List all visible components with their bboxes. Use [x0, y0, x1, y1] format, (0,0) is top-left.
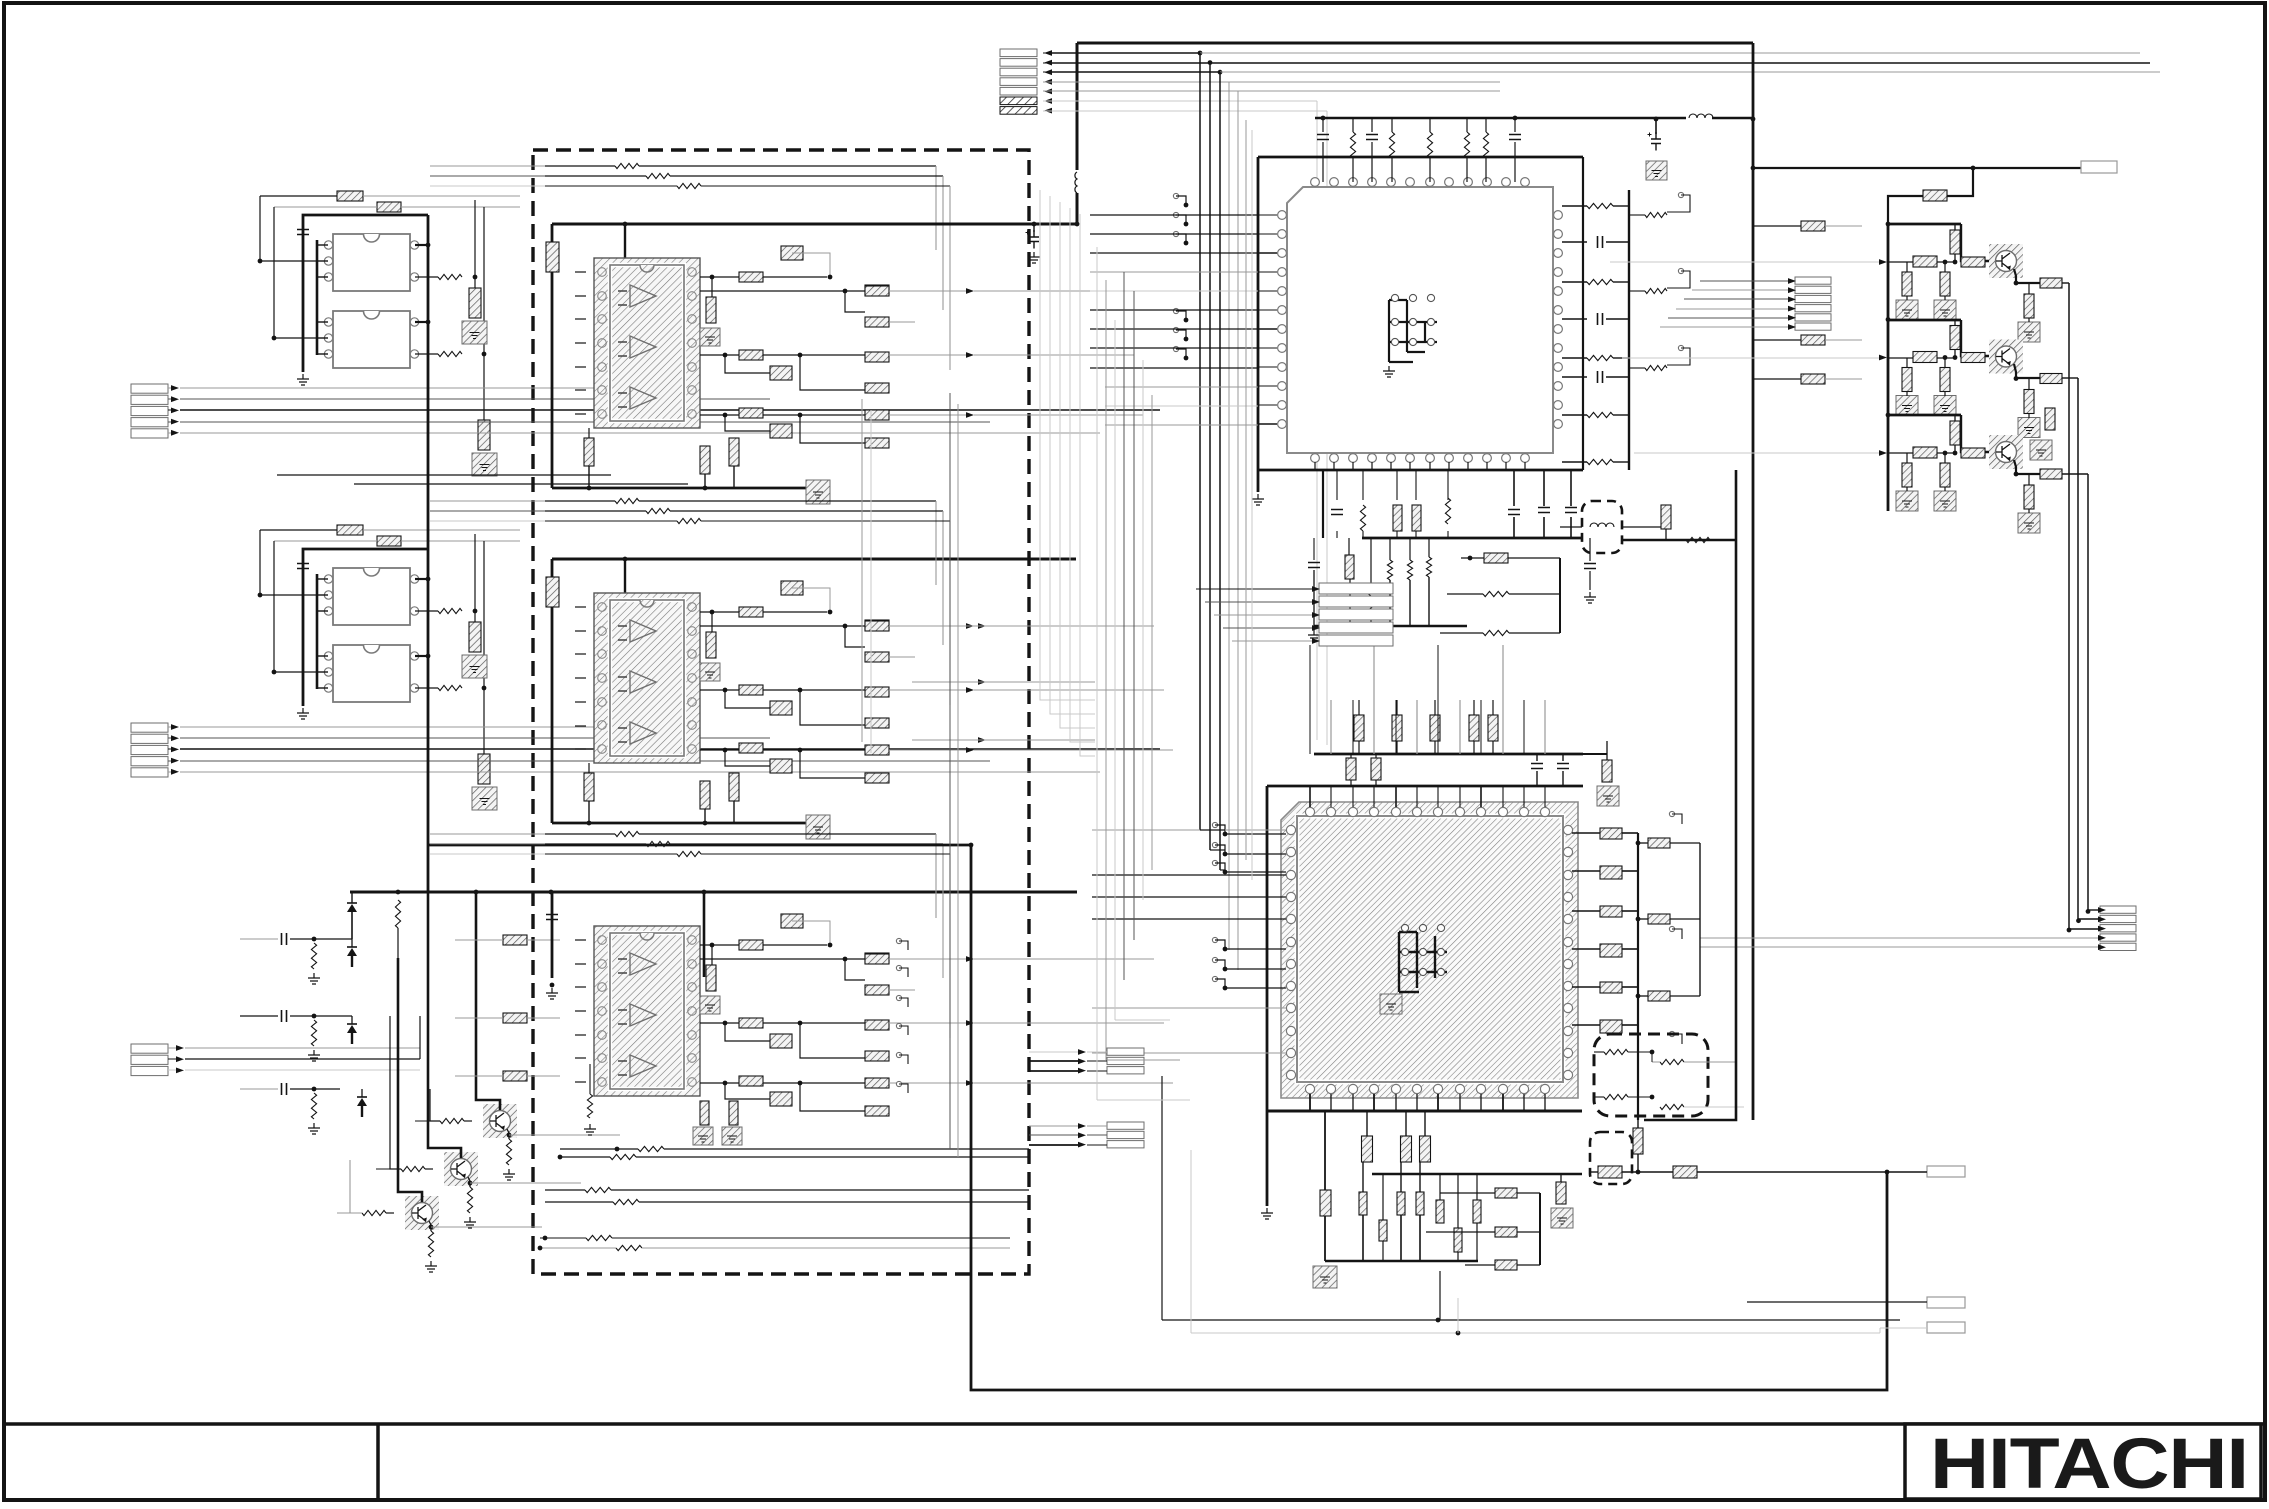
wire — [1190, 1150, 1192, 1333]
ground pad — [1597, 786, 1619, 806]
arrow — [1312, 625, 1320, 631]
wire — [1638, 842, 1648, 844]
wire — [1087, 1125, 1107, 1127]
resistor R108 — [1426, 557, 1431, 577]
junction — [723, 353, 728, 358]
wire — [725, 1023, 770, 1041]
wire pin stub — [1502, 786, 1504, 807]
junction — [1223, 986, 1228, 991]
wire — [1176, 196, 1186, 205]
wire — [1223, 627, 1312, 629]
wire — [290, 1015, 314, 1017]
wire pin stub — [1502, 1094, 1504, 1111]
wire — [1514, 118, 1516, 132]
wire — [1029, 1134, 1078, 1136]
wire — [1570, 517, 1572, 538]
op-amp UA2 — [324, 311, 418, 368]
wire — [1536, 771, 1538, 786]
wire — [899, 1084, 908, 1093]
wire input row — [1105, 424, 1258, 426]
junction — [1953, 355, 1958, 360]
arrow — [171, 430, 179, 436]
wire — [314, 1015, 352, 1017]
wire — [1396, 741, 1398, 754]
wire — [1473, 700, 1475, 715]
arrow — [2098, 926, 2106, 932]
transistor Q1 — [483, 1104, 517, 1138]
wire — [1370, 538, 1372, 588]
wire pin stub — [1416, 1094, 1418, 1111]
wire — [560, 1156, 610, 1158]
wire — [2078, 918, 2098, 920]
resistor R155 — [1473, 1200, 1481, 1223]
capacitor CA1 — [469, 288, 481, 318]
resistor R129 — [2024, 390, 2034, 414]
wire — [1825, 225, 1862, 227]
resistor R98 — [1645, 288, 1667, 293]
wire — [1400, 1215, 1402, 1261]
wire — [545, 1201, 613, 1203]
wire pin stub — [1258, 252, 1277, 254]
open terminal — [1212, 957, 1217, 962]
wire — [1670, 918, 1700, 920]
resistor R119 — [1961, 257, 1985, 267]
junction — [1751, 117, 1756, 122]
wire — [1670, 842, 1700, 844]
wire — [1670, 995, 1700, 997]
resistor R138 — [1392, 715, 1402, 741]
capacitor CE2 — [1913, 352, 1937, 363]
wire — [314, 1088, 340, 1090]
resistor R115 — [1801, 221, 1825, 231]
junction — [396, 890, 401, 895]
wire — [560, 1148, 638, 1150]
junction — [1650, 1050, 1655, 1055]
wire input row — [1092, 874, 1286, 876]
wire — [974, 414, 1143, 416]
wire — [1517, 1192, 1540, 1194]
wire — [240, 1088, 278, 1090]
wire — [889, 1082, 972, 1084]
resistor R137 — [1354, 715, 1364, 741]
wire — [1352, 700, 1354, 754]
resistor R144 — [1602, 760, 1612, 782]
wire — [763, 276, 827, 278]
crystal X1 — [1389, 300, 1437, 362]
wire — [168, 409, 171, 411]
wire — [462, 474, 611, 476]
wire input — [185, 1058, 420, 1060]
wire — [2062, 377, 2078, 379]
wire — [670, 843, 943, 845]
wire input line — [180, 409, 1160, 411]
open terminal — [1173, 231, 1178, 236]
wire main right bus — [1752, 43, 1755, 1120]
wire — [1362, 1215, 1364, 1261]
wire — [588, 801, 590, 823]
wire — [1566, 1171, 1590, 1173]
resistor R145 — [1320, 1190, 1331, 1216]
wire routing — [1123, 272, 1125, 980]
resistor R161 — [1600, 866, 1622, 879]
wire — [1492, 741, 1494, 754]
resistor R12 — [311, 1093, 316, 1119]
arrow — [1044, 79, 1052, 85]
resistor R8 — [438, 685, 462, 690]
wire pin stub — [1258, 366, 1277, 368]
wire — [889, 414, 972, 416]
svg-text:HITACHI: HITACHI — [1930, 1425, 2248, 1504]
wire — [1523, 700, 1525, 754]
wire — [1644, 470, 1736, 1120]
wire routing — [870, 410, 872, 753]
wire — [1176, 215, 1186, 224]
wire — [274, 541, 317, 672]
junction — [1218, 70, 1223, 75]
wire — [700, 958, 865, 960]
wire — [827, 354, 865, 356]
wire — [1961, 415, 1989, 452]
wire — [575, 389, 586, 391]
resistor R153 — [1436, 1200, 1444, 1223]
wire — [1622, 526, 1665, 528]
wire — [1466, 158, 1468, 182]
wire — [670, 510, 943, 512]
open terminal — [896, 1023, 901, 1028]
junction — [1636, 1170, 1641, 1175]
wire — [588, 763, 590, 773]
wire — [1350, 780, 1352, 786]
resistor R133 — [1940, 463, 1950, 487]
junction — [587, 486, 592, 491]
wire — [474, 611, 476, 622]
diode D4 — [357, 1097, 367, 1106]
resistor R65 — [739, 940, 763, 950]
wire — [527, 1017, 560, 1019]
wire — [1429, 158, 1431, 182]
connector CN6 — [1795, 277, 1831, 330]
wire — [889, 749, 972, 751]
wire routing — [1200, 829, 1225, 831]
wire — [1087, 1070, 1107, 1072]
wire — [317, 260, 328, 262]
wire — [899, 941, 908, 950]
wire — [1461, 557, 1484, 559]
wire — [642, 1247, 1010, 1249]
wire — [701, 520, 950, 522]
wire — [763, 414, 827, 416]
resistor R76 — [865, 1106, 889, 1116]
wire — [1362, 470, 1364, 500]
wire — [575, 1057, 586, 1059]
wire — [1667, 348, 1690, 365]
connector CNC — [131, 1044, 168, 1076]
wire — [1961, 224, 1989, 261]
arrow — [171, 385, 179, 391]
wire — [1606, 318, 1629, 320]
wire — [1613, 281, 1629, 283]
wire input line — [180, 421, 990, 423]
junction — [798, 748, 803, 753]
wire — [317, 353, 328, 355]
resistor R79 — [729, 1101, 738, 1125]
junction — [843, 289, 848, 294]
wire — [425, 1168, 433, 1170]
IC QFP U10 pins — [1278, 178, 1563, 463]
wire routing — [430, 853, 545, 855]
open terminal — [1678, 268, 1683, 273]
wire — [540, 1247, 616, 1249]
capacitor C8 — [1366, 135, 1378, 140]
wire — [701, 853, 950, 855]
ground pad — [693, 1127, 713, 1145]
wire — [1572, 986, 1600, 988]
wire output — [431, 1226, 542, 1228]
wire — [1672, 1034, 1682, 1044]
open terminal — [896, 1052, 901, 1057]
resistor R60 — [865, 621, 889, 631]
wire — [763, 611, 827, 613]
wire — [317, 337, 328, 339]
resistor R82 — [610, 1154, 636, 1159]
junction — [1456, 1331, 1461, 1336]
wire — [1434, 741, 1436, 754]
junction — [543, 1236, 548, 1241]
resistor R169 — [1604, 1049, 1628, 1054]
arrow — [966, 352, 974, 358]
wire — [1366, 1111, 1368, 1136]
junction — [1886, 317, 1891, 322]
wire — [1676, 308, 1788, 310]
open terminal — [1212, 860, 1217, 865]
wire — [899, 1026, 908, 1035]
wire — [1162, 1319, 1900, 1321]
wire — [1572, 832, 1600, 834]
wire — [168, 760, 171, 762]
ground pad — [1380, 994, 1402, 1014]
wire — [2014, 364, 2040, 378]
wire — [1395, 700, 1397, 754]
resistor R44 — [739, 607, 763, 617]
wire — [575, 748, 586, 750]
wire pin stub — [1309, 1094, 1311, 1111]
resistor R146 — [1362, 1136, 1373, 1162]
junction — [1223, 852, 1228, 857]
wire bus — [1219, 72, 1221, 870]
open terminal — [1678, 345, 1683, 350]
wire pin stub — [1371, 462, 1373, 470]
junction — [1184, 241, 1189, 246]
resistor R141 — [1488, 715, 1498, 741]
wire — [670, 175, 943, 177]
wire — [588, 428, 590, 438]
wire input line — [180, 771, 1100, 773]
arrow — [966, 956, 974, 962]
open terminal — [1669, 926, 1674, 931]
wire routing — [1251, 130, 1253, 880]
wire — [1187, 829, 1267, 831]
ground — [308, 973, 320, 984]
wire — [942, 176, 944, 310]
wire — [1419, 1162, 1421, 1192]
wire routing — [1070, 208, 1095, 742]
arrow — [1788, 278, 1796, 284]
wire — [1961, 320, 1989, 356]
wire — [575, 701, 586, 703]
ground — [1584, 592, 1596, 603]
wire — [1205, 601, 1312, 603]
resistor R165 — [1600, 1020, 1622, 1033]
wire — [1043, 90, 1052, 92]
wire feedback — [545, 165, 615, 167]
wire — [1944, 392, 1946, 396]
capacitor C17 — [1308, 563, 1320, 568]
ground pad — [1896, 396, 1918, 416]
resistor R59 — [729, 773, 739, 801]
wire — [639, 833, 936, 835]
capacitor CE3 — [1913, 447, 1937, 458]
wire — [1589, 571, 1591, 590]
junction — [703, 486, 708, 491]
resistor R24 — [781, 246, 803, 260]
wire routing — [957, 404, 959, 1157]
ground pad — [462, 655, 487, 678]
junction — [1513, 116, 1518, 121]
wire — [700, 944, 739, 946]
wire — [1196, 588, 1312, 590]
wire — [792, 588, 830, 612]
wire — [1613, 461, 1629, 463]
wire — [1517, 1264, 1540, 1266]
wire — [527, 1075, 560, 1077]
wire pin stub — [1486, 462, 1488, 470]
wire — [1429, 118, 1431, 132]
wire — [899, 998, 908, 1007]
wire — [1029, 1051, 1078, 1053]
wire — [1191, 1332, 1880, 1334]
wire — [1052, 62, 1210, 64]
wire pin stub — [1330, 786, 1332, 807]
resistor R131 — [1961, 448, 1985, 458]
wire — [1825, 378, 1862, 380]
wire input line — [180, 726, 660, 728]
wire — [575, 606, 586, 608]
wire — [575, 366, 586, 368]
resistor R26 — [865, 317, 889, 327]
wire — [1348, 538, 1350, 555]
wire pin stub — [1437, 786, 1439, 807]
wire — [763, 944, 827, 946]
wire — [351, 892, 353, 903]
resistor R120 — [1902, 272, 1912, 296]
wire — [1076, 43, 1079, 170]
wire — [1622, 1171, 1650, 1173]
resistor R87 — [1350, 132, 1355, 158]
wire supply bus — [552, 558, 1076, 561]
wire — [1052, 71, 1220, 73]
wire — [845, 626, 865, 647]
wire — [1539, 1193, 1541, 1265]
wire pin stub — [1258, 385, 1277, 387]
wire — [260, 529, 337, 531]
op-amp IC UD2 — [594, 593, 700, 763]
wire — [1753, 225, 1801, 227]
wire — [1944, 487, 1946, 491]
wire — [1358, 741, 1360, 754]
wire input row — [1090, 290, 1258, 292]
wire — [1502, 645, 1504, 754]
wire routing — [949, 393, 951, 1149]
wire — [1440, 1192, 1495, 1194]
wire pin stub — [1258, 423, 1277, 425]
wire — [1888, 196, 1923, 224]
wire — [889, 656, 915, 658]
capacitor C14 — [1508, 510, 1520, 515]
wire stage bus — [1887, 415, 1890, 511]
wire — [899, 1055, 908, 1064]
wire — [704, 809, 706, 823]
resistor R35 — [706, 297, 716, 323]
resistor R134 — [2040, 469, 2062, 479]
resistor R122 — [2040, 278, 2062, 288]
arrow — [978, 623, 986, 629]
IC QFP U20 inner — [1297, 816, 1563, 1082]
wire routing — [1106, 1059, 1180, 1061]
junction — [1032, 222, 1037, 227]
resistor R168 — [1648, 991, 1670, 1001]
wire — [1622, 948, 1638, 950]
wire — [455, 1017, 503, 1019]
wire pin stub — [1330, 1094, 1332, 1111]
resistor R139 — [1430, 715, 1440, 741]
wire output bus — [2068, 283, 2070, 930]
IC QFP U20 body — [1281, 802, 1578, 1098]
wire pin stub — [1448, 462, 1450, 470]
wire — [827, 1022, 865, 1024]
wire pin stub — [1523, 786, 1525, 807]
resistor R151 — [1416, 1192, 1424, 1215]
terminal box T3 — [1927, 1297, 1965, 1308]
wire — [1313, 570, 1315, 626]
ground — [1261, 1208, 1273, 1219]
junction — [1650, 1095, 1655, 1100]
terminal box T2 — [1927, 1166, 1965, 1177]
wire — [1426, 1231, 1495, 1233]
transistor QO3 — [1989, 435, 2023, 469]
wire — [711, 612, 713, 632]
wire — [1350, 754, 1352, 758]
wire routing — [1105, 280, 1107, 1060]
wire — [575, 630, 586, 632]
resistor R111 — [1483, 630, 1509, 635]
wire pin stub — [1258, 328, 1277, 330]
wire pin stub — [1373, 1094, 1375, 1111]
junction — [723, 1081, 728, 1086]
wire — [551, 559, 554, 823]
junction — [474, 890, 479, 895]
arrow — [176, 1045, 184, 1051]
ground pad — [1646, 161, 1667, 180]
wire — [168, 1058, 176, 1060]
capacitor CE0 — [1648, 132, 1662, 151]
wire output bus — [2087, 474, 2089, 911]
arrow — [176, 1068, 184, 1074]
wire — [1517, 1231, 1540, 1233]
junction — [1971, 166, 1976, 171]
wire — [889, 290, 972, 292]
resistor R89 — [1427, 132, 1432, 158]
wire — [1954, 320, 1956, 326]
